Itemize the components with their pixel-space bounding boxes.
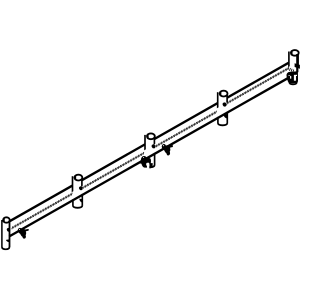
post P4 upper tube <box>218 91 228 110</box>
post P3 lower tube <box>145 153 154 167</box>
claw hook left of P3 <box>139 156 152 168</box>
post P1 tube <box>2 217 10 249</box>
post P2 lower tube <box>73 194 82 208</box>
rail right end face <box>295 63 300 72</box>
hatched rope band <box>12 67 294 229</box>
rope clamp dot at P3 <box>151 144 156 149</box>
clamp hook at P5 <box>286 71 298 83</box>
post P2 upper tube <box>73 175 83 195</box>
snap hook at left end <box>18 228 29 239</box>
wire L1 top edge <box>9 63 289 222</box>
small hook mark under rail at P4 <box>224 114 227 118</box>
rope clamp dot at P1 <box>6 227 11 232</box>
small hook mark under rail at P1 <box>6 239 10 242</box>
post P4 lower tube <box>218 112 227 126</box>
post P5 upper tube <box>289 50 299 69</box>
small hook mark under rail at P2 <box>79 199 82 203</box>
wire rail front face <box>10 63 296 238</box>
wire rail top surface <box>10 57 296 230</box>
wire L2 bottom edge <box>9 76 292 237</box>
post P5 lower stub <box>289 76 297 84</box>
post P5 right edge <box>296 54 298 67</box>
snap hook right of P3 <box>162 144 173 155</box>
rope clamp dot at P4 <box>222 102 227 108</box>
rope clamp dot at P2 <box>78 186 83 191</box>
post P3 upper tube <box>145 133 155 154</box>
